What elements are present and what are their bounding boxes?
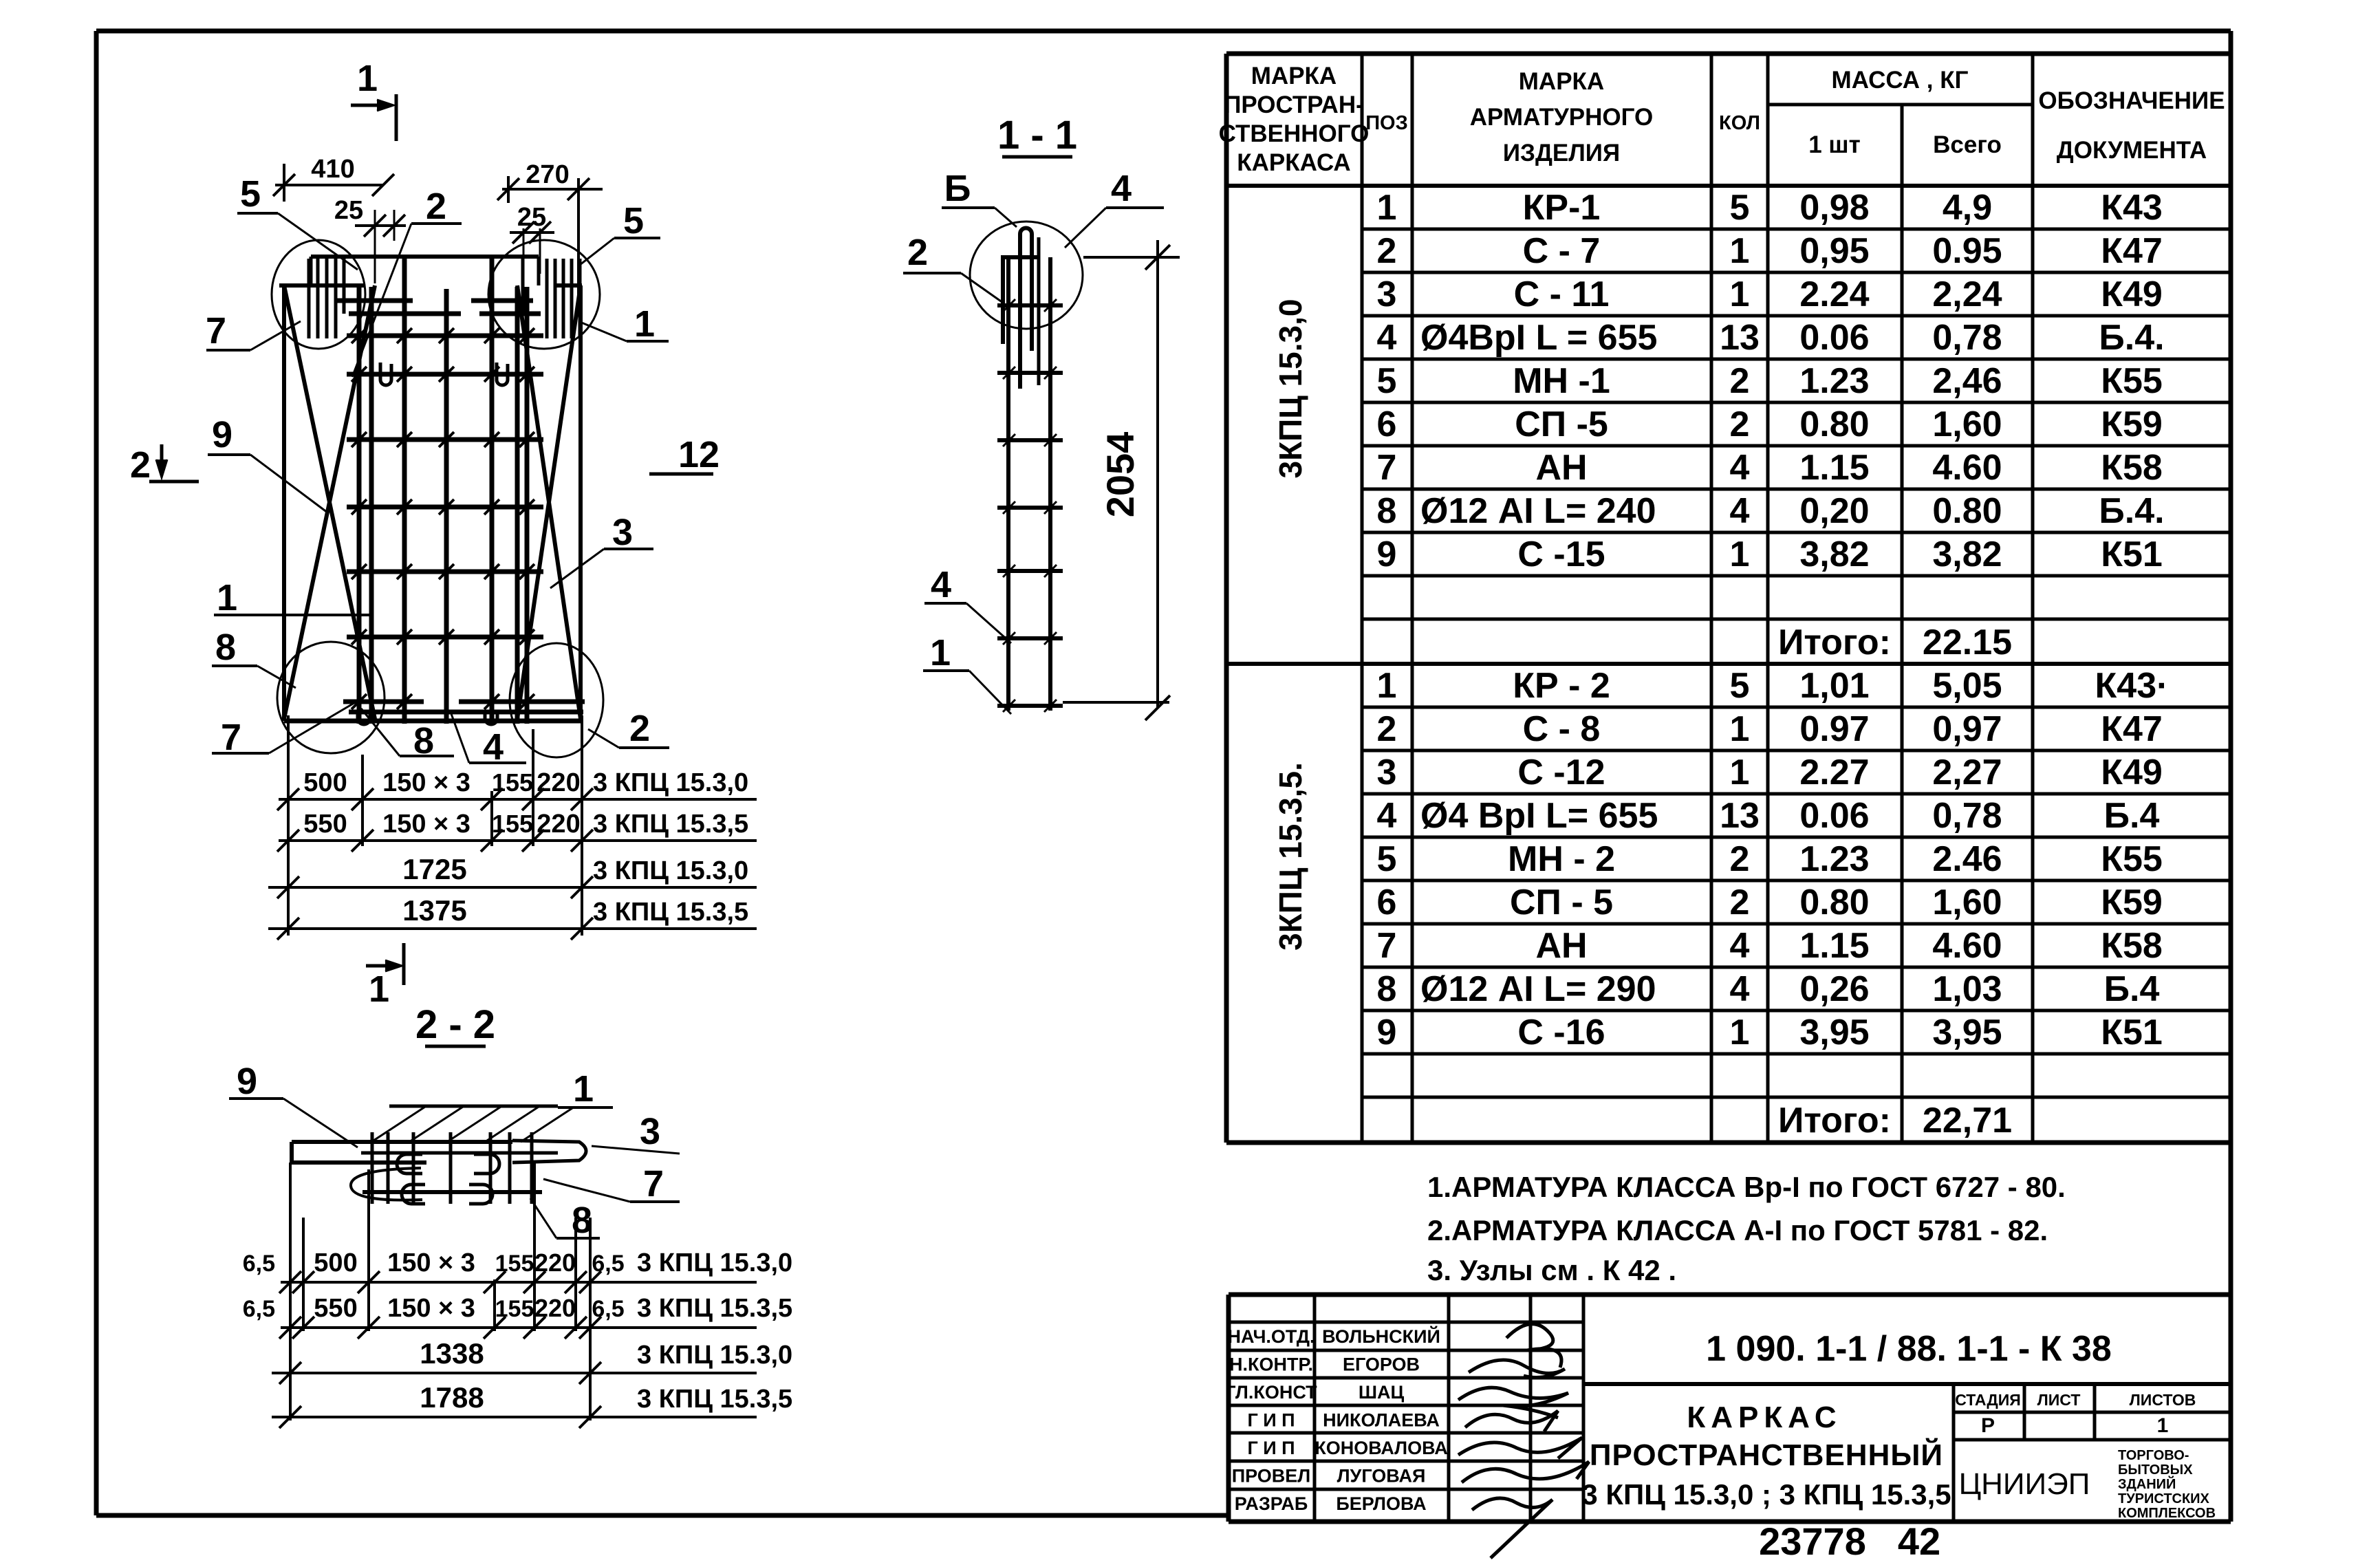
label 7 bottom-left xyxy=(212,699,361,758)
svg-text:220: 220 xyxy=(537,810,580,839)
svg-text:К43·: К43· xyxy=(2095,666,2169,706)
label 7 top-left xyxy=(206,310,301,352)
svg-text:КАРКАСА: КАРКАСА xyxy=(1237,149,1350,176)
svg-text:2: 2 xyxy=(130,444,151,486)
svg-text:0.80: 0.80 xyxy=(1799,404,1869,444)
svg-text:К47: К47 xyxy=(2101,231,2163,271)
svg-text:С - 8: С - 8 xyxy=(1523,709,1601,749)
section mark 2 left xyxy=(130,444,199,486)
svg-text:ЕГОРОВ: ЕГОРОВ xyxy=(1343,1354,1420,1375)
label 3 xyxy=(550,512,653,588)
svg-text:0.80: 0.80 xyxy=(1799,883,1869,922)
svg-text:Ø4 ВрI L= 655: Ø4 ВрI L= 655 xyxy=(1420,796,1658,836)
cage horizontal bars (pos 4) xyxy=(347,328,543,645)
section mark 2 right xyxy=(649,434,720,475)
drawing title xyxy=(1581,1401,1951,1511)
section 2-2 dim chain row 2 xyxy=(243,1294,792,1339)
section 2-2 dim chain row 4 xyxy=(272,1381,792,1428)
svg-text:Б.4.: Б.4. xyxy=(2099,491,2164,531)
detail bubble top-left xyxy=(272,240,365,349)
svg-text:ДОКУМЕНТА: ДОКУМЕНТА xyxy=(2057,137,2207,164)
svg-text:Г И П: Г И П xyxy=(1247,1410,1295,1431)
plan dim chain row 4 xyxy=(268,894,757,940)
svg-text:2: 2 xyxy=(1730,839,1750,879)
svg-text:550: 550 xyxy=(303,810,347,839)
svg-text:4: 4 xyxy=(1111,168,1132,209)
svg-text:13: 13 xyxy=(1720,796,1760,836)
svg-text:2: 2 xyxy=(629,708,650,749)
label 9 xyxy=(208,414,327,512)
svg-text:К58: К58 xyxy=(2101,448,2163,488)
svg-text:К59: К59 xyxy=(2101,404,2163,444)
label 2 section11 xyxy=(903,232,1003,303)
svg-text:1: 1 xyxy=(1730,753,1750,792)
svg-text:3 КПЦ 15.3,0 ; 3 КПЦ 15.3,5: 3 КПЦ 15.3,0 ; 3 КПЦ 15.3,5 xyxy=(1581,1478,1951,1511)
svg-text:2 - 2: 2 - 2 xyxy=(415,1002,495,1047)
left X brace xyxy=(284,285,375,719)
svg-text:С -12: С -12 xyxy=(1517,753,1605,792)
svg-text:25: 25 xyxy=(334,196,363,225)
svg-text:9: 9 xyxy=(1377,534,1397,574)
svg-text:3 КПЦ 15.3,5: 3 КПЦ 15.3,5 xyxy=(637,1385,792,1414)
svg-text:МАРКА: МАРКА xyxy=(1251,63,1337,89)
svg-text:150 × 3: 150 × 3 xyxy=(382,768,470,797)
svg-text:Р: Р xyxy=(1981,1414,1995,1437)
section 1-1 top hook bars xyxy=(1001,228,1040,389)
svg-text:ОБОЗНАЧЕНИЕ: ОБОЗНАЧЕНИЕ xyxy=(2038,87,2225,114)
svg-text:0.80: 0.80 xyxy=(1932,491,2002,531)
svg-text:4: 4 xyxy=(1377,796,1397,836)
svg-text:25: 25 xyxy=(517,203,546,232)
svg-text:2: 2 xyxy=(426,186,446,227)
label 2 bottom-right xyxy=(588,708,669,749)
svg-text:23778: 23778 xyxy=(1759,1520,1866,1563)
svg-text:К58: К58 xyxy=(2101,926,2163,966)
svg-text:5: 5 xyxy=(1730,666,1750,706)
svg-text:КОМПЛЕКСОВ: КОМПЛЕКСОВ xyxy=(2118,1506,2216,1521)
svg-text:3. Узлы см . К 42 .: 3. Узлы см . К 42 . xyxy=(1427,1254,1676,1286)
svg-text:3: 3 xyxy=(1377,753,1397,792)
svg-text:ЛИСТ: ЛИСТ xyxy=(2037,1391,2081,1409)
svg-text:НАЧ.ОТД.: НАЧ.ОТД. xyxy=(1228,1326,1315,1347)
notes text xyxy=(1427,1171,2066,1286)
table header text xyxy=(1219,63,2225,176)
svg-text:7: 7 xyxy=(1377,926,1397,966)
svg-text:1375: 1375 xyxy=(402,894,466,927)
plan dim chain row 2 xyxy=(277,810,757,852)
section 1-1 title xyxy=(997,113,1077,158)
svg-text:С -15: С -15 xyxy=(1517,534,1605,574)
svg-text:3: 3 xyxy=(1377,274,1397,314)
label 4 lower xyxy=(924,564,1011,643)
svg-text:Б.4: Б.4 xyxy=(2104,969,2160,1009)
svg-text:3,95: 3,95 xyxy=(1799,1013,1869,1052)
svg-text:ГЛ.КОНСТ: ГЛ.КОНСТ xyxy=(1225,1382,1317,1403)
svg-text:Всего: Всего xyxy=(1933,131,2002,158)
svg-text:1.АРМАТУРА КЛАССА Вр-I по: 1.АРМАТУРА КЛАССА Вр-I по ГОСТ 6727 - 80… xyxy=(1427,1171,2066,1203)
svg-text:220: 220 xyxy=(534,1249,576,1277)
svg-text:4.60: 4.60 xyxy=(1932,448,2002,488)
section 1-1 rungs xyxy=(997,299,1063,712)
svg-text:Итого:: Итого: xyxy=(1778,623,1891,662)
svg-text:5: 5 xyxy=(1377,839,1397,879)
svg-text:Б.4: Б.4 xyxy=(2104,796,2160,836)
title block left labels xyxy=(1225,1326,1447,1514)
svg-text:0.95: 0.95 xyxy=(1932,231,2002,271)
svg-text:220: 220 xyxy=(537,768,580,797)
svg-text:6,5: 6,5 xyxy=(592,1251,624,1277)
dimension 25 right xyxy=(510,203,554,274)
section 1-1 detail circle xyxy=(970,221,1083,329)
svg-text:3: 3 xyxy=(640,1111,660,1152)
detail bubble bottom-left xyxy=(277,642,385,753)
plan dim chain row 1 xyxy=(277,768,757,810)
svg-text:8: 8 xyxy=(1377,491,1397,531)
svg-text:22.15: 22.15 xyxy=(1923,623,2012,662)
section 1-1 ladder verticals xyxy=(1008,257,1050,711)
svg-text:ТУРИСТСКИХ: ТУРИСТСКИХ xyxy=(2118,1491,2210,1506)
svg-text:4,9: 4,9 xyxy=(1943,188,1992,228)
svg-text:1338: 1338 xyxy=(420,1337,484,1370)
svg-text:0.06: 0.06 xyxy=(1799,796,1869,836)
svg-text:500: 500 xyxy=(303,768,347,797)
svg-text:0.97: 0.97 xyxy=(1799,709,1869,749)
top hooks (field) xyxy=(380,363,508,385)
svg-text:Б.4.: Б.4. xyxy=(2099,318,2164,358)
anchor hatch bars left (pos 5) xyxy=(309,259,336,338)
svg-text:6: 6 xyxy=(1377,883,1397,922)
svg-text:ТОРГОВО-: ТОРГОВО- xyxy=(2118,1448,2189,1463)
svg-text:5: 5 xyxy=(1377,361,1397,401)
svg-text:1,03: 1,03 xyxy=(1932,969,2002,1009)
svg-text:2: 2 xyxy=(1377,709,1397,749)
svg-text:1 - 1: 1 - 1 xyxy=(997,113,1077,158)
svg-text:БЫТОВЫХ: БЫТОВЫХ xyxy=(2118,1462,2193,1478)
svg-text:3 КПЦ 15.3,0: 3 КПЦ 15.3,0 xyxy=(593,768,748,797)
svg-text:ЗДАНИЙ: ЗДАНИЙ xyxy=(2118,1476,2176,1492)
svg-text:2: 2 xyxy=(1377,231,1397,271)
svg-text:2: 2 xyxy=(1730,404,1750,444)
cage vertical bars xyxy=(359,257,527,724)
svg-text:АН: АН xyxy=(1535,448,1587,488)
svg-text:155: 155 xyxy=(492,810,533,838)
svg-text:1: 1 xyxy=(1730,274,1750,314)
section 2-2 dim extension lines xyxy=(290,1163,590,1420)
svg-text:К49: К49 xyxy=(2101,274,2163,314)
svg-text:1 шт: 1 шт xyxy=(1808,131,1861,158)
anchor hatch bars right (pos 5) xyxy=(547,259,580,338)
title block grid xyxy=(1229,1295,2231,1522)
section 2-2 dim chain row 1 xyxy=(243,1249,792,1293)
svg-text:1: 1 xyxy=(2157,1414,2169,1437)
svg-text:1,60: 1,60 xyxy=(1932,404,2002,444)
label 4 bottom xyxy=(451,712,526,768)
svg-text:1: 1 xyxy=(1377,188,1397,228)
label 8 section22 xyxy=(530,1198,600,1241)
svg-text:550: 550 xyxy=(314,1294,357,1323)
svg-text:0,95: 0,95 xyxy=(1799,231,1869,271)
svg-text:2: 2 xyxy=(907,232,928,273)
beam vertical bars xyxy=(372,1132,532,1204)
svg-text:4: 4 xyxy=(1377,318,1397,358)
section mark 1 top xyxy=(351,58,396,141)
svg-text:К55: К55 xyxy=(2101,361,2163,401)
svg-text:2,27: 2,27 xyxy=(1932,753,2002,792)
detail bubble bottom-right xyxy=(510,643,603,757)
svg-text:СП -5: СП -5 xyxy=(1515,404,1608,444)
svg-text:1 090. 1-1 / 88. 1-1 - К 38: 1 090. 1-1 / 88. 1-1 - К 38 xyxy=(1706,1329,2112,1369)
svg-text:1: 1 xyxy=(1730,1013,1750,1052)
svg-text:2054: 2054 xyxy=(1099,432,1142,518)
svg-text:13: 13 xyxy=(1720,318,1760,358)
plan dim chain extension lines xyxy=(288,715,582,936)
svg-text:22,71: 22,71 xyxy=(1923,1101,2012,1141)
svg-text:4.60: 4.60 xyxy=(1932,926,2002,966)
svg-text:МАРКА: МАРКА xyxy=(1519,68,1604,95)
svg-text:СП - 5: СП - 5 xyxy=(1510,883,1613,922)
svg-text:СТВЕННОГО: СТВЕННОГО xyxy=(1219,120,1370,147)
label 1 top-right xyxy=(580,303,669,345)
label 1 mid-left xyxy=(214,577,371,618)
label 2 top xyxy=(352,186,462,377)
svg-text:1: 1 xyxy=(634,303,655,345)
svg-text:1: 1 xyxy=(1730,534,1750,574)
svg-text:3 КПЦ 15.3,5: 3 КПЦ 15.3,5 xyxy=(593,898,748,927)
svg-text:0,78: 0,78 xyxy=(1932,796,2002,836)
svg-text:1.23: 1.23 xyxy=(1799,361,1869,401)
svg-text:9: 9 xyxy=(237,1061,257,1102)
svg-text:4: 4 xyxy=(1730,969,1750,1009)
beam top hatched part xyxy=(371,1106,574,1142)
label 5 top-right xyxy=(580,200,660,265)
svg-text:1: 1 xyxy=(1377,666,1397,706)
svg-text:АН: АН xyxy=(1535,926,1587,966)
svg-text:4: 4 xyxy=(1730,448,1750,488)
svg-text:К43: К43 xyxy=(2101,188,2163,228)
svg-text:3КПЦ 15.3,0: 3КПЦ 15.3,0 xyxy=(1273,299,1308,479)
detail bubble top-right xyxy=(488,240,600,349)
label 1 lower xyxy=(923,632,1011,714)
title block signatures (scribbles) xyxy=(1458,1324,1589,1558)
dimension 25 left xyxy=(334,196,406,283)
svg-text:Ø4ВрI L = 655: Ø4ВрI L = 655 xyxy=(1420,318,1657,358)
svg-text:1,01: 1,01 xyxy=(1799,666,1869,706)
stage/sheet header xyxy=(1955,1391,2196,1437)
svg-text:3,82: 3,82 xyxy=(1799,534,1869,574)
svg-text:АРМАТУРНОГО: АРМАТУРНОГО xyxy=(1470,104,1653,131)
svg-text:500: 500 xyxy=(314,1249,357,1277)
svg-text:КОЛ: КОЛ xyxy=(1719,112,1760,134)
svg-text:С -16: С -16 xyxy=(1517,1013,1605,1052)
svg-text:МН -1: МН -1 xyxy=(1513,361,1610,401)
section 2-2 title xyxy=(415,1002,495,1047)
svg-text:КАРКАС: КАРКАС xyxy=(1687,1401,1841,1434)
svg-text:1: 1 xyxy=(1730,709,1750,749)
dimension 270 xyxy=(497,160,603,296)
svg-text:0,98: 0,98 xyxy=(1799,188,1869,228)
svg-text:КР-1: КР-1 xyxy=(1523,188,1601,228)
svg-text:150 × 3: 150 × 3 xyxy=(387,1249,475,1277)
svg-text:1: 1 xyxy=(1730,231,1750,271)
svg-text:155: 155 xyxy=(495,1296,534,1322)
label 8 bottom xyxy=(361,709,454,761)
svg-text:НИКОЛАЕВА: НИКОЛАЕВА xyxy=(1323,1410,1440,1431)
svg-text:220: 220 xyxy=(534,1294,576,1322)
svg-text:ПРОСТРАН-: ПРОСТРАН- xyxy=(1224,91,1364,118)
svg-text:Н.КОНТР.: Н.КОНТР. xyxy=(1229,1354,1313,1375)
label 7 section22 xyxy=(543,1163,680,1204)
svg-text:Ø12 АI L= 240: Ø12 АI L= 240 xyxy=(1420,491,1656,531)
svg-text:ЛУГОВАЯ: ЛУГОВАЯ xyxy=(1337,1466,1426,1487)
svg-text:1: 1 xyxy=(573,1068,594,1110)
svg-text:СТАДИЯ: СТАДИЯ xyxy=(1955,1391,2021,1409)
svg-text:3 КПЦ 15.3,0: 3 КПЦ 15.3,0 xyxy=(637,1341,792,1370)
label B xyxy=(942,168,1017,227)
svg-text:8: 8 xyxy=(215,627,236,668)
svg-text:6: 6 xyxy=(1377,404,1397,444)
svg-text:155: 155 xyxy=(495,1251,534,1277)
svg-text:К51: К51 xyxy=(2101,1013,2163,1052)
label 8 left xyxy=(212,627,296,688)
organization subtitle xyxy=(2118,1448,2216,1521)
svg-text:6,5: 6,5 xyxy=(243,1251,275,1277)
bottom cap bars xyxy=(343,694,585,712)
dimension 410 xyxy=(273,155,394,202)
svg-text:3,82: 3,82 xyxy=(1932,534,2002,574)
svg-text:С - 11: С - 11 xyxy=(1514,274,1610,314)
svg-text:2: 2 xyxy=(1730,883,1750,922)
svg-text:1: 1 xyxy=(357,58,378,99)
svg-text:5: 5 xyxy=(623,200,644,241)
svg-text:2,46: 2,46 xyxy=(1932,361,2002,401)
svg-text:ПРОСТРАНСТВЕННЫЙ: ПРОСТРАНСТВЕННЫЙ xyxy=(1590,1437,1943,1472)
svg-text:4: 4 xyxy=(931,564,951,605)
svg-text:0.06: 0.06 xyxy=(1799,318,1869,358)
svg-text:Итого:: Итого: xyxy=(1778,1101,1891,1141)
svg-text:К47: К47 xyxy=(2101,709,2163,749)
svg-text:150 × 3: 150 × 3 xyxy=(382,810,470,839)
svg-text:2.27: 2.27 xyxy=(1799,753,1869,792)
svg-text:8: 8 xyxy=(1377,969,1397,1009)
dimension 2054 xyxy=(1063,240,1180,720)
svg-text:9: 9 xyxy=(1377,1013,1397,1052)
group 2 table rows xyxy=(1377,666,2169,1141)
svg-text:3: 3 xyxy=(612,512,633,553)
svg-text:3,95: 3,95 xyxy=(1932,1013,2002,1052)
svg-text:1: 1 xyxy=(369,969,389,1010)
beam horizontal bars xyxy=(292,1141,586,1192)
svg-text:1725: 1725 xyxy=(402,853,466,885)
svg-text:С - 7: С - 7 xyxy=(1523,231,1601,271)
svg-text:БЕРЛОВА: БЕРЛОВА xyxy=(1336,1493,1426,1514)
label 5 top-left xyxy=(237,173,358,270)
svg-text:0,78: 0,78 xyxy=(1932,318,2002,358)
svg-text:ЛИСТОВ: ЛИСТОВ xyxy=(2130,1391,2196,1409)
svg-text:6,5: 6,5 xyxy=(592,1296,624,1322)
svg-text:2.46: 2.46 xyxy=(1932,839,2002,879)
section 2-2 dim chain row 3 xyxy=(272,1337,792,1384)
svg-text:6,5: 6,5 xyxy=(243,1296,275,1322)
svg-text:К51: К51 xyxy=(2101,534,2163,574)
svg-text:1.23: 1.23 xyxy=(1799,839,1869,879)
plan dim chain row 3 xyxy=(268,853,757,898)
svg-text:Ø12 АI L= 290: Ø12 АI L= 290 xyxy=(1420,969,1656,1009)
label 3 section22 xyxy=(592,1111,680,1154)
svg-text:1,60: 1,60 xyxy=(1932,883,2002,922)
svg-text:4: 4 xyxy=(1730,926,1750,966)
svg-text:2.АРМАТУРА КЛАССА А-I по: 2.АРМАТУРА КЛАССА А-I по ГОСТ 5781 - 82. xyxy=(1427,1214,2048,1246)
svg-text:0,20: 0,20 xyxy=(1799,491,1869,531)
svg-text:1: 1 xyxy=(217,577,237,618)
svg-text:ИЗДЕЛИЯ: ИЗДЕЛИЯ xyxy=(1503,140,1620,166)
group 1 table rows xyxy=(1377,188,2165,662)
section mark 1 bottom xyxy=(366,943,404,1010)
svg-text:5: 5 xyxy=(240,173,261,215)
label 1 section22 xyxy=(558,1068,613,1110)
svg-text:9: 9 xyxy=(212,414,232,455)
svg-text:12: 12 xyxy=(678,434,720,475)
svg-text:1.15: 1.15 xyxy=(1799,926,1869,966)
bottom hooks xyxy=(358,712,497,724)
svg-text:7: 7 xyxy=(1377,448,1397,488)
svg-text:270: 270 xyxy=(526,160,569,189)
svg-text:1788: 1788 xyxy=(420,1381,484,1414)
beam hooks xyxy=(351,1154,499,1204)
specification table grid xyxy=(1226,54,2231,1143)
svg-text:1: 1 xyxy=(930,632,951,673)
svg-text:7: 7 xyxy=(643,1163,664,1204)
svg-text:3 КПЦ 15.3,0: 3 КПЦ 15.3,0 xyxy=(637,1249,792,1277)
svg-text:Г И П: Г И П xyxy=(1247,1438,1295,1458)
svg-text:КОНОВАЛОВА: КОНОВАЛОВА xyxy=(1315,1438,1448,1458)
svg-text:150 × 3: 150 × 3 xyxy=(387,1294,475,1323)
label 4 top xyxy=(1065,168,1164,248)
svg-text:3 КПЦ 15.3,0: 3 КПЦ 15.3,0 xyxy=(593,856,748,885)
svg-text:МН - 2: МН - 2 xyxy=(1508,839,1615,879)
svg-text:3 КПЦ 15.3,5: 3 КПЦ 15.3,5 xyxy=(637,1294,792,1323)
svg-text:2: 2 xyxy=(1730,361,1750,401)
svg-text:ВОЛЬНСКИЙ: ВОЛЬНСКИЙ xyxy=(1322,1326,1440,1347)
svg-text:410: 410 xyxy=(311,155,354,184)
svg-text:2.24: 2.24 xyxy=(1799,274,1869,314)
svg-text:1.15: 1.15 xyxy=(1799,448,1869,488)
svg-text:42: 42 xyxy=(1898,1520,1940,1563)
svg-text:К49: К49 xyxy=(2101,753,2163,792)
svg-text:КР - 2: КР - 2 xyxy=(1513,666,1610,706)
svg-text:5: 5 xyxy=(1730,188,1750,228)
outer panel outline xyxy=(279,285,582,721)
svg-text:3КПЦ 15.3,5.: 3КПЦ 15.3,5. xyxy=(1273,762,1308,951)
svg-text:ПРОВЕЛ: ПРОВЕЛ xyxy=(1232,1466,1311,1487)
svg-text:РАЗРАБ: РАЗРАБ xyxy=(1235,1493,1308,1514)
cage top cap bars xyxy=(311,257,541,314)
svg-text:МАССА , КГ: МАССА , КГ xyxy=(1832,67,1969,94)
svg-text:ПОЗ: ПОЗ xyxy=(1365,112,1408,134)
svg-text:Б: Б xyxy=(944,168,971,209)
svg-text:0,26: 0,26 xyxy=(1799,969,1869,1009)
svg-text:2,24: 2,24 xyxy=(1932,274,2002,314)
right X brace xyxy=(517,285,581,719)
svg-text:0,97: 0,97 xyxy=(1932,709,2002,749)
svg-text:К59: К59 xyxy=(2101,883,2163,922)
svg-text:3 КПЦ 15.3,5: 3 КПЦ 15.3,5 xyxy=(593,810,748,839)
svg-text:7: 7 xyxy=(206,310,226,352)
svg-text:155: 155 xyxy=(492,768,533,797)
svg-text:К55: К55 xyxy=(2101,839,2163,879)
svg-text:5,05: 5,05 xyxy=(1932,666,2002,706)
svg-text:4: 4 xyxy=(1730,491,1750,531)
svg-text:ШАЦ: ШАЦ xyxy=(1359,1382,1405,1403)
